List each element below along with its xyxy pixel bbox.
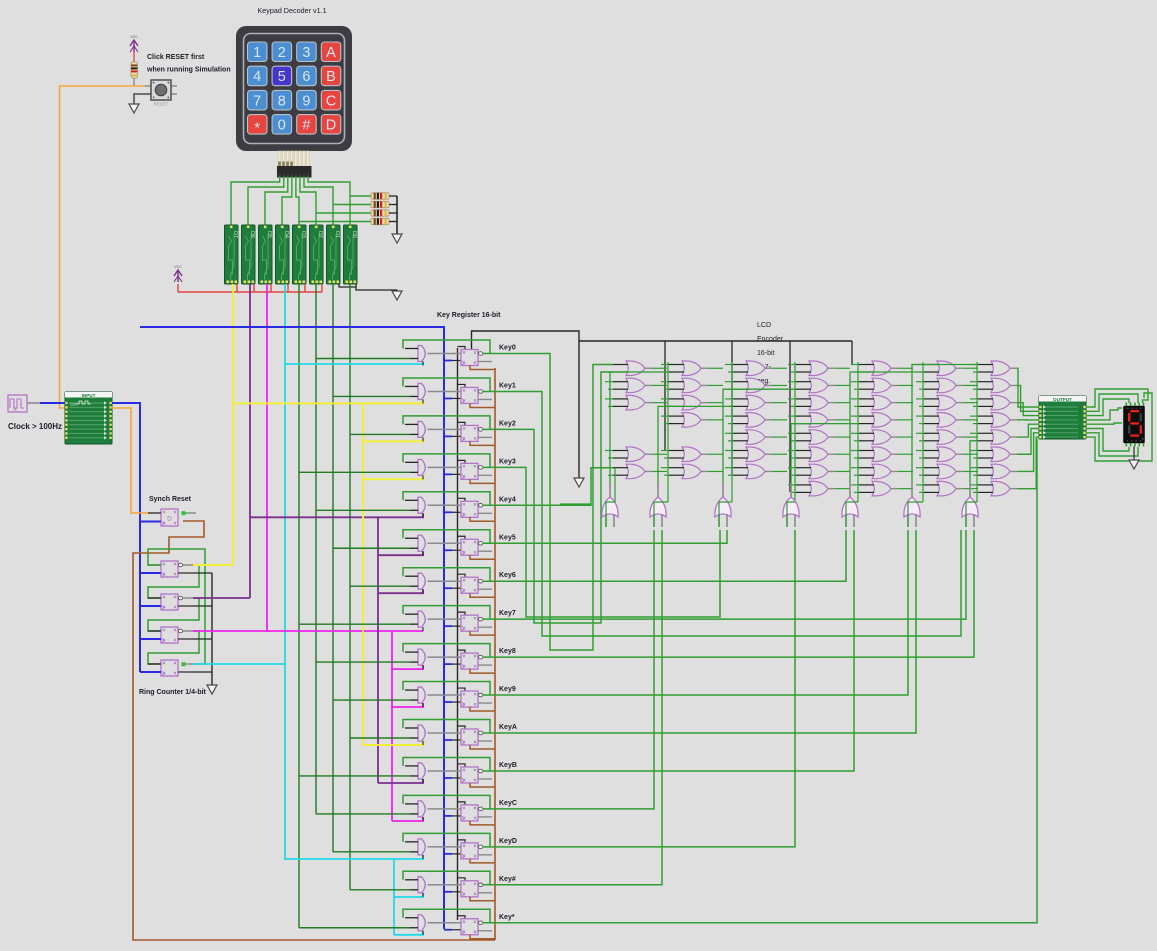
wire green sense bus 3: [349, 284, 351, 890]
wire green hold loop Key8: [403, 644, 490, 657]
display 7-segment DS1: [1124, 403, 1145, 447]
wire green rail c6: [922, 362, 924, 502]
wire black ring stub: [193, 671, 212, 673]
svg-text:Key8: Key8: [499, 648, 516, 655]
or-gate segment driver S1: [650, 483, 666, 527]
wire R5 to node: [133, 78, 135, 86]
wire black stub IC D1: [339, 284, 356, 287]
wire green segment S6 output: [970, 441, 978, 483]
or-gate encoder c3 r6: [725, 447, 787, 462]
label KeyD: [499, 838, 517, 845]
wire brown reset stub KeyA: [470, 745, 495, 749]
wire green bg input link: [787, 502, 795, 527]
wire blue clock register rail: [140, 327, 444, 929]
ground IC bus: [392, 291, 402, 300]
wire purple scan1: [193, 597, 250, 599]
pushbutton RESET SW1: [145, 80, 177, 107]
wire green segment S0 output: [610, 372, 669, 483]
wire blue clock stub Key#: [444, 891, 452, 893]
wire red vcc to R5: [133, 52, 135, 62]
or-gate encoder c5 r5: [851, 430, 913, 445]
ground encoder: [574, 478, 584, 487]
wire magenta branch vertical: [391, 631, 393, 821]
label synch reset: [149, 496, 192, 503]
connector J1 keypad header: [277, 166, 312, 178]
wire brown reset stub Key8: [470, 669, 495, 673]
wire green bg input link: [966, 502, 977, 527]
svg-text:D7: D7: [232, 231, 238, 238]
svg-text:5: 5: [278, 69, 286, 85]
or-gate encoder c4 r2: [788, 378, 850, 393]
or-gate encoder c6 r3: [916, 395, 978, 410]
or-gate encoder c1 r6: [605, 447, 667, 462]
wire clock stub black Key2: [452, 435, 461, 437]
or-gate segment driver S2: [715, 483, 731, 527]
wire brown reset stub Key3: [470, 479, 495, 483]
wire resistor R1 to ground bus: [389, 195, 397, 197]
wire green Key8 output: [483, 530, 975, 657]
or-gate encoder c5 r6: [851, 447, 913, 462]
wire purple key5 feed: [378, 551, 423, 555]
clock source CLK1 >100Hz: [8, 395, 27, 412]
or-gate encoder c6 r2: [916, 378, 978, 393]
wire brown reset stub Key6: [470, 593, 495, 597]
wire green display segment 4: [1086, 423, 1122, 424]
wire blue clock to INPUT: [40, 402, 65, 404]
wire blue clock stub Key5: [444, 549, 452, 551]
wire brown reset stub KeyC: [470, 821, 495, 825]
flip-flop Key5 register bit: [461, 539, 492, 555]
wire green to output pin 2: [1017, 403, 1039, 416]
label KeyC: [499, 800, 517, 807]
wire cyan key0 feed: [285, 362, 423, 365]
wire green hold loop Key2: [403, 416, 490, 429]
or-gate encoder c4 r5: [788, 430, 850, 445]
wire blue clock distribution: [112, 403, 140, 672]
wire green to output pin 4: [1017, 424, 1039, 437]
svg-text:C: C: [326, 93, 336, 109]
wire black encoder drop: [664, 341, 666, 451]
or-gate encoder c2 r3: [661, 395, 723, 410]
wire magenta key8 feed: [392, 665, 423, 669]
wire black ring stub: [193, 605, 212, 607]
svg-text:Key Register 16-bit: Key Register 16-bit: [437, 312, 501, 319]
wire blue clock stub Key9: [444, 701, 452, 703]
or-gate encoder c4 r1: [788, 361, 850, 376]
wire clock stub black Key#: [452, 891, 461, 893]
wire green sense feed Key0: [316, 358, 410, 360]
wire green Key4 output: [483, 468, 614, 506]
svg-text:Key1: Key1: [499, 382, 516, 389]
wire green sense feed Key5: [333, 547, 410, 549]
wire clock stub black KeyB: [452, 777, 461, 779]
ground ring counter: [207, 685, 217, 694]
resistor R3: [371, 210, 389, 216]
wire brown reset stub Key*: [470, 935, 495, 939]
label lcd encoder: [757, 322, 784, 385]
flip-flop Key6 register bit: [461, 577, 492, 593]
flip-flop KeyC register bit: [461, 805, 492, 821]
svg-text:VCC: VCC: [130, 35, 138, 39]
svg-text:OUTPUT: OUTPUT: [1053, 397, 1072, 402]
wire green hold loop KeyA: [403, 720, 490, 733]
wire blue clock stub KeyC: [444, 815, 452, 817]
svg-text:0: 0: [278, 118, 286, 134]
or-gate encoder c5 r3: [851, 395, 913, 410]
wire green hold loop Key0: [403, 340, 490, 353]
label ring counter: [139, 689, 207, 696]
wire clock stub black KeyC: [452, 815, 461, 817]
svg-text:Key*: Key*: [499, 914, 515, 921]
wire resistor ground bus: [396, 196, 398, 234]
wire black stub Key8: [458, 650, 466, 653]
wire to pullup resistor R3: [316, 212, 371, 214]
svg-text:Key#: Key#: [499, 876, 516, 883]
wire red stub to IC: [270, 284, 272, 292]
wire black encoder drop: [731, 341, 733, 475]
svg-text:4: 4: [253, 69, 261, 85]
svg-text:Synch Reset: Synch Reset: [149, 496, 192, 503]
svg-text:Clock > 100Hz: Clock > 100Hz: [8, 422, 62, 431]
IC D0 diode module: [344, 225, 358, 284]
or-gate encoder c7 r4: [970, 413, 1017, 428]
label click reset: [146, 54, 231, 74]
and-gate Key0 strobe: [405, 346, 461, 366]
wire green sense feed Key1: [333, 395, 410, 397]
wire brown register reset rail: [494, 368, 496, 940]
svg-text:KeyD: KeyD: [499, 838, 517, 845]
svg-text:Key5: Key5: [499, 534, 516, 541]
wire green Key0 output: [483, 354, 614, 651]
keypad ribbon cable: [278, 151, 309, 166]
svg-text:B: B: [326, 69, 336, 85]
wire cyan keyH feed: [394, 893, 423, 897]
or-gate encoder c7 r3: [970, 395, 1017, 410]
wire to pullup resistor R1: [350, 195, 371, 197]
IC U8 OUTPUT buffer block: [1039, 396, 1086, 439]
wire clock stub black Key8: [452, 663, 461, 665]
and-gate Key5 strobe: [405, 535, 461, 555]
resistor R1: [371, 193, 389, 199]
svg-text:2: 2: [278, 45, 286, 61]
ground display: [1129, 460, 1139, 469]
svg-text:RESET: RESET: [154, 102, 169, 107]
svg-text:VCC: VCC: [174, 265, 182, 269]
and-gate Key3 strobe: [405, 459, 461, 479]
wire green hold loop Key#: [403, 871, 490, 884]
wire green Key1 output: [483, 391, 962, 636]
wire black stub KeyC: [458, 802, 466, 805]
wire black stub Key7: [458, 612, 466, 615]
label Key7: [499, 610, 516, 617]
or-gate encoder c6 r4: [916, 413, 978, 428]
wire green Key6 output: [483, 530, 847, 581]
wire green bg input link: [719, 502, 732, 527]
wire clock stub black Key0: [452, 360, 461, 362]
flip-flop Key1 register bit: [461, 387, 492, 403]
svg-text:7: 7: [253, 93, 261, 109]
label Key0: [499, 345, 516, 352]
wire green hold loop Key5: [403, 530, 490, 543]
or-gate encoder c4 r4: [788, 413, 850, 428]
or-gate segment driver S6: [962, 483, 978, 527]
svg-text:#: #: [302, 118, 310, 134]
wire green to output pin 0: [1017, 368, 1039, 407]
wire resistor R2 to ground bus: [389, 204, 397, 206]
flip-flop Key* register bit: [461, 919, 492, 935]
flip-flop U6 ring counter bit 3: [140, 660, 193, 676]
wire keypad col 2 to IC D5: [265, 177, 288, 225]
label key register: [437, 312, 501, 319]
wire green to output pin 7: [1017, 437, 1039, 489]
wire black stub Key3: [458, 460, 466, 463]
wire green sense feed Key3: [299, 471, 410, 473]
wire cyan keyS feed: [394, 931, 423, 935]
and-gate Key# strobe: [405, 877, 461, 897]
wire green Key5 output: [483, 530, 728, 543]
wire green display segment 7: [1086, 393, 1152, 461]
wire green to output pin 3: [1017, 419, 1039, 421]
wire clock stub black KeyD: [452, 853, 461, 855]
wire clock stub black Key3: [452, 473, 461, 475]
or-gate encoder c6 r6: [916, 447, 978, 462]
wire keypad row to IC: [304, 177, 333, 225]
wire green Key3 output: [483, 467, 721, 617]
wire green display segment 3: [1086, 408, 1122, 420]
flip-flop U4 ring counter bit 1: [140, 594, 193, 610]
svg-text:D1: D1: [334, 231, 340, 238]
or-gate encoder c3 r5: [725, 430, 787, 445]
wire green sense bus 2: [332, 284, 334, 852]
svg-text:8: 8: [278, 93, 286, 109]
wire green sense feed Key#: [350, 889, 410, 891]
or-gate encoder c1 r1: [605, 361, 667, 376]
label KeyA: [499, 724, 517, 731]
svg-text:Key7: Key7: [499, 610, 516, 617]
label Key2: [499, 420, 516, 427]
wire green bg1 links: [606, 468, 615, 527]
wire red VCC bus: [178, 291, 322, 293]
svg-text:Key9: Key9: [499, 686, 516, 693]
wire keypad row to IC: [296, 177, 299, 225]
IC D2 diode module: [310, 225, 324, 284]
wire orange reset to synch: [112, 408, 150, 513]
wire blue clock stub Key3: [444, 473, 452, 475]
or-gate encoder c3 r2: [725, 378, 787, 393]
wire black register rail: [457, 348, 459, 920]
or-gate encoder c7 r1: [970, 361, 1017, 376]
wire yellow scan bus vertical: [232, 284, 234, 565]
IC D6 diode module: [242, 225, 256, 284]
wire green KeyD output: [483, 530, 796, 847]
wire clock stub black Key4: [452, 511, 461, 513]
wire green hold loop Key*: [403, 909, 490, 922]
or-gate segment driver S5: [904, 483, 920, 527]
wire black stub Key9: [458, 688, 466, 691]
svg-text:LCD: LCD: [757, 322, 771, 329]
and-gate Key8 strobe: [405, 649, 461, 669]
wire black stub KeyA: [458, 726, 466, 729]
wire brown reset stub Key0: [470, 366, 495, 370]
wire to pullup resistor R4: [299, 221, 371, 223]
wire blue clock stub Key*: [444, 929, 452, 931]
wire display ground: [1133, 447, 1135, 461]
flip-flop Key4 register bit: [461, 501, 492, 517]
wire red stub to IC: [304, 284, 306, 292]
wire green display segment 5: [1086, 429, 1129, 452]
wire cyan scan bus vertical: [284, 284, 286, 860]
wire black shift bus: [472, 331, 580, 350]
svg-text:9: 9: [302, 93, 310, 109]
wire to pullup resistor R2: [333, 204, 371, 206]
svg-text:Key3: Key3: [499, 458, 516, 465]
label Key*: [499, 914, 515, 921]
svg-text:Click RESET first: Click RESET first: [147, 54, 205, 61]
wire yellow scan0: [193, 564, 233, 566]
flip-flop U5 ring counter bit 2: [140, 627, 193, 643]
wire black stub Key4: [458, 498, 466, 501]
wire green sense feed Key8: [316, 661, 410, 663]
wire clock stub black Key1: [452, 397, 461, 399]
flip-flop Key9 register bit: [461, 691, 492, 707]
wire purple keyB feed: [378, 779, 423, 783]
wire clock output stub: [27, 402, 40, 404]
wire keypad col 3 to IC D4: [282, 177, 292, 225]
wire clock stub black Key9: [452, 701, 461, 703]
wire clock stub black Key5: [452, 549, 461, 551]
label Key3: [499, 458, 516, 465]
wire green display segment 1: [1086, 394, 1138, 411]
wire green hold loop Key6: [403, 568, 490, 581]
flip-flop Key3 register bit: [461, 463, 492, 479]
wire black stub Key0: [458, 347, 466, 350]
wire green to output pin 5: [1017, 429, 1039, 455]
wire brown reset stub Key5: [470, 555, 495, 559]
wire clock stub black KeyA: [452, 739, 461, 741]
wire magenta key9 feed: [392, 703, 423, 707]
flip-flop Key2 register bit: [461, 425, 492, 441]
wire black encoder drop: [851, 341, 853, 365]
IC D7 diode module: [225, 225, 239, 284]
wire brown reset stub Key7: [470, 631, 495, 635]
wire brown reset stub Key2: [470, 441, 495, 445]
wire purple key4 feed: [250, 513, 423, 517]
wire green KeyB output: [483, 530, 855, 771]
label Key#: [499, 876, 516, 883]
or-gate encoder c2 r4: [661, 413, 723, 428]
svg-text:16-bit: 16-bit: [757, 350, 775, 357]
label Key4: [499, 496, 516, 503]
IC D3 diode module: [293, 225, 307, 284]
wire black ring ground: [211, 573, 213, 685]
wire green rail c3: [731, 362, 733, 502]
wire brown reset stub Key#: [470, 897, 495, 901]
svg-text:KeyA: KeyA: [499, 724, 517, 731]
wire brown reset stub Key9: [470, 707, 495, 711]
wire green sense feed KeyB: [299, 775, 410, 777]
wire green sense feed KeyA: [350, 737, 410, 739]
IC D1 diode module: [327, 225, 341, 284]
wire green bg1 link2: [560, 503, 591, 505]
flip-flop KeyA register bit: [461, 729, 492, 745]
resistor R5 reset pullup: [131, 62, 137, 78]
label title Keypad Decoder v1.1: [257, 6, 326, 15]
wire green ring feedback 1: [148, 598, 199, 631]
wire green ring loop: [148, 549, 205, 664]
wire keypad col 1 to IC D6: [248, 177, 284, 225]
svg-text:*: *: [254, 121, 260, 137]
wire green segment S4 output: [850, 372, 924, 483]
wire green hold loop KeyB: [403, 757, 490, 770]
wire green rail c4: [794, 362, 796, 502]
flip-flop Key# register bit: [461, 881, 492, 897]
wire blue clock stub KeyB: [444, 777, 452, 779]
or-gate encoder c5 r2: [851, 378, 913, 393]
wire blue clock stub Key7: [444, 625, 452, 627]
flip-flop Key0 register bit: [461, 350, 492, 366]
or-gate encoder c6 r7: [916, 464, 978, 479]
wire yellow keyA branch: [363, 403, 423, 745]
flip-flop U3 ring counter bit 0: [140, 561, 193, 577]
or-gate encoder c5 r4: [851, 413, 913, 428]
wire clock stub black Key7: [452, 625, 461, 627]
svg-text:Encoder: Encoder: [757, 336, 784, 343]
wire green ring feedback 2: [148, 631, 199, 664]
wire clock stub black Key*: [452, 929, 461, 931]
wire green bg input link: [654, 502, 668, 527]
wire keypad col 0 to IC D7: [231, 177, 280, 225]
wire green Key# output: [483, 530, 663, 885]
wire brown reset stub KeyD: [470, 859, 495, 863]
wire black stub Key1: [458, 384, 466, 387]
or-gate encoder c1 r7: [605, 464, 667, 479]
wire green segment S2 output: [723, 389, 796, 483]
or-gate encoder c3 r1: [725, 361, 787, 376]
wire green display segment 0: [1086, 389, 1148, 407]
and-gate Key* strobe: [405, 915, 461, 935]
wire green sense feed Key6: [350, 585, 410, 587]
wire green hold loop Key7: [403, 606, 490, 619]
or-gate segment driver S0: [602, 483, 618, 527]
wire black stub Key*: [458, 916, 466, 919]
wire black stub Key5: [458, 536, 466, 539]
wire cyan keyD feed: [285, 855, 423, 859]
wire magenta scan2 long: [193, 630, 423, 632]
wire black stub Key2: [458, 422, 466, 425]
wire green hold loop KeyD: [403, 833, 490, 846]
svg-text:6: 6: [302, 69, 310, 85]
wire green hold loop Key9: [403, 682, 490, 695]
and-gate Key1 strobe: [405, 383, 461, 403]
wire green sense bus 1: [315, 284, 317, 814]
and-gate Key2 strobe: [405, 421, 461, 441]
wire black stub Key6: [458, 574, 466, 577]
wire cyan scan3: [193, 663, 285, 665]
or-gate encoder c5 r1: [851, 361, 913, 376]
svg-text:Key6: Key6: [499, 572, 516, 579]
or-gate encoder c6 r8: [916, 481, 978, 496]
svg-text:D: D: [326, 118, 336, 134]
svg-text:KeyC: KeyC: [499, 800, 517, 807]
or-gate encoder c1 r2: [605, 378, 667, 393]
wire green bg input link: [846, 502, 858, 527]
flip-flop Key8 register bit: [461, 653, 492, 669]
flip-flop KeyD register bit: [461, 843, 492, 859]
wire green hold loop Key3: [403, 454, 490, 467]
or-gate encoder c3 r3: [725, 395, 787, 410]
wire blue clock stub Key6: [444, 587, 452, 589]
wire green segment S3 output: [791, 424, 859, 483]
